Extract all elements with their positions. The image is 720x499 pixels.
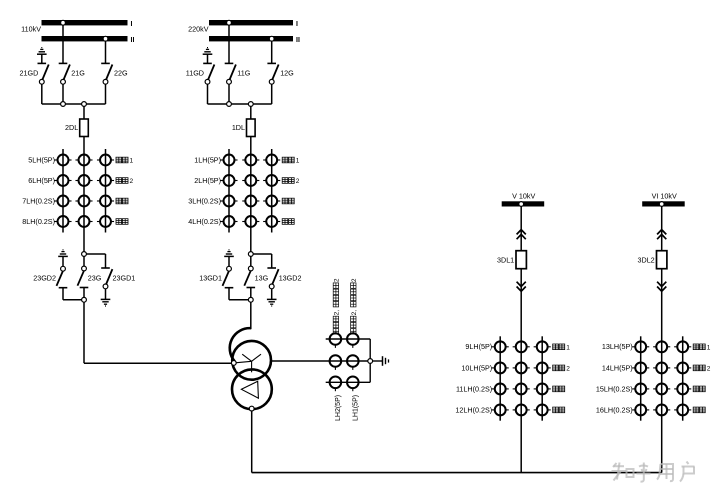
svg-text:1LH(5P): 1LH(5P) [194, 155, 221, 164]
svg-text:3DL1: 3DL1 [497, 255, 514, 264]
svg-text:3LH(0.2S): 3LH(0.2S) [188, 196, 221, 205]
svg-text:V 10kV: V 10kV [512, 192, 535, 201]
svg-text:2LH(5P): 2LH(5P) [194, 176, 221, 185]
svg-text:23G: 23G [88, 273, 102, 282]
svg-text:13G: 13G [255, 273, 269, 282]
svg-text:1: 1 [130, 158, 134, 165]
svg-text:5LH(5P): 5LH(5P) [28, 155, 55, 164]
svg-text:12LH(0.2S): 12LH(0.2S) [455, 405, 492, 414]
svg-text:23GD1: 23GD1 [113, 273, 136, 282]
svg-text:2: 2 [334, 278, 341, 282]
svg-text:2,: 2, [334, 310, 341, 316]
svg-text:2: 2 [707, 366, 711, 373]
svg-text:13GD2: 13GD2 [279, 273, 302, 282]
svg-text:LH2(5P): LH2(5P) [335, 395, 342, 421]
svg-text:11GD: 11GD [186, 68, 204, 77]
svg-text:7LH(0.2S): 7LH(0.2S) [22, 196, 55, 205]
svg-text:21GD: 21GD [20, 68, 39, 77]
svg-text:16LH(0.2S): 16LH(0.2S) [596, 405, 633, 414]
svg-text:I: I [296, 21, 298, 28]
svg-text:15LH(0.2S): 15LH(0.2S) [596, 384, 633, 393]
svg-text:2,: 2, [351, 310, 358, 316]
svg-text:21G: 21G [71, 69, 85, 78]
svg-text:3DL2: 3DL2 [638, 255, 655, 264]
svg-text:2: 2 [566, 366, 570, 373]
svg-text:11LH(0.2S): 11LH(0.2S) [456, 384, 492, 393]
svg-text:1: 1 [707, 344, 711, 351]
svg-text:LH1(5P): LH1(5P) [353, 395, 360, 421]
svg-text:I: I [131, 21, 133, 28]
svg-text:6LH(5P): 6LH(5P) [28, 176, 55, 185]
svg-text:2: 2 [130, 178, 134, 185]
svg-text:II: II [131, 37, 135, 44]
svg-text:2DL: 2DL [65, 123, 78, 132]
svg-text:220kV: 220kV [188, 25, 209, 34]
svg-text:1: 1 [566, 344, 570, 351]
svg-text:23GD2: 23GD2 [33, 273, 56, 282]
svg-text:13GD1: 13GD1 [199, 273, 222, 282]
svg-text:1DL: 1DL [232, 123, 245, 132]
svg-text:VI 10kV: VI 10kV [652, 192, 677, 201]
svg-text:1: 1 [296, 158, 300, 165]
svg-text:9LH(5P): 9LH(5P) [465, 342, 492, 351]
svg-text:13LH(5P): 13LH(5P) [602, 342, 633, 351]
svg-text:4LH(0.2S): 4LH(0.2S) [188, 217, 221, 226]
svg-text:12G: 12G [280, 69, 294, 78]
svg-text:8LH(0.2S): 8LH(0.2S) [22, 217, 55, 226]
svg-text:110kV: 110kV [21, 25, 41, 34]
svg-text:22G: 22G [114, 69, 128, 78]
svg-text:14LH(5P): 14LH(5P) [602, 363, 633, 372]
svg-text:2: 2 [351, 278, 358, 282]
svg-text:11G: 11G [237, 69, 250, 78]
svg-text:10LH(5P): 10LH(5P) [461, 363, 492, 372]
svg-text:II: II [296, 37, 300, 44]
svg-text:2: 2 [296, 178, 300, 185]
